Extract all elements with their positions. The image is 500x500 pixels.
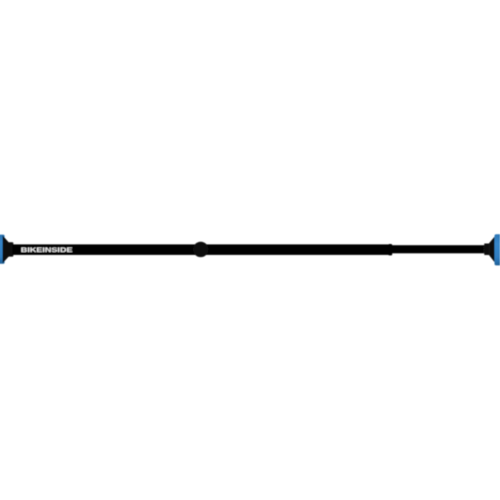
svg-text:BIKEINSIDE: BIKEINSIDE [21,247,74,254]
left blue foot pad [0,235,5,264]
right end cone [489,236,495,263]
left end cone [3,235,9,263]
left collar [8,242,13,256]
right blue foot pad [494,234,500,265]
outer tube end collar [388,244,392,255]
inner tube [391,245,485,253]
center clamp knob [193,242,208,257]
outer tube [13,244,391,255]
collar ridge teeth [483,247,484,248]
right ridged collar [484,244,489,256]
